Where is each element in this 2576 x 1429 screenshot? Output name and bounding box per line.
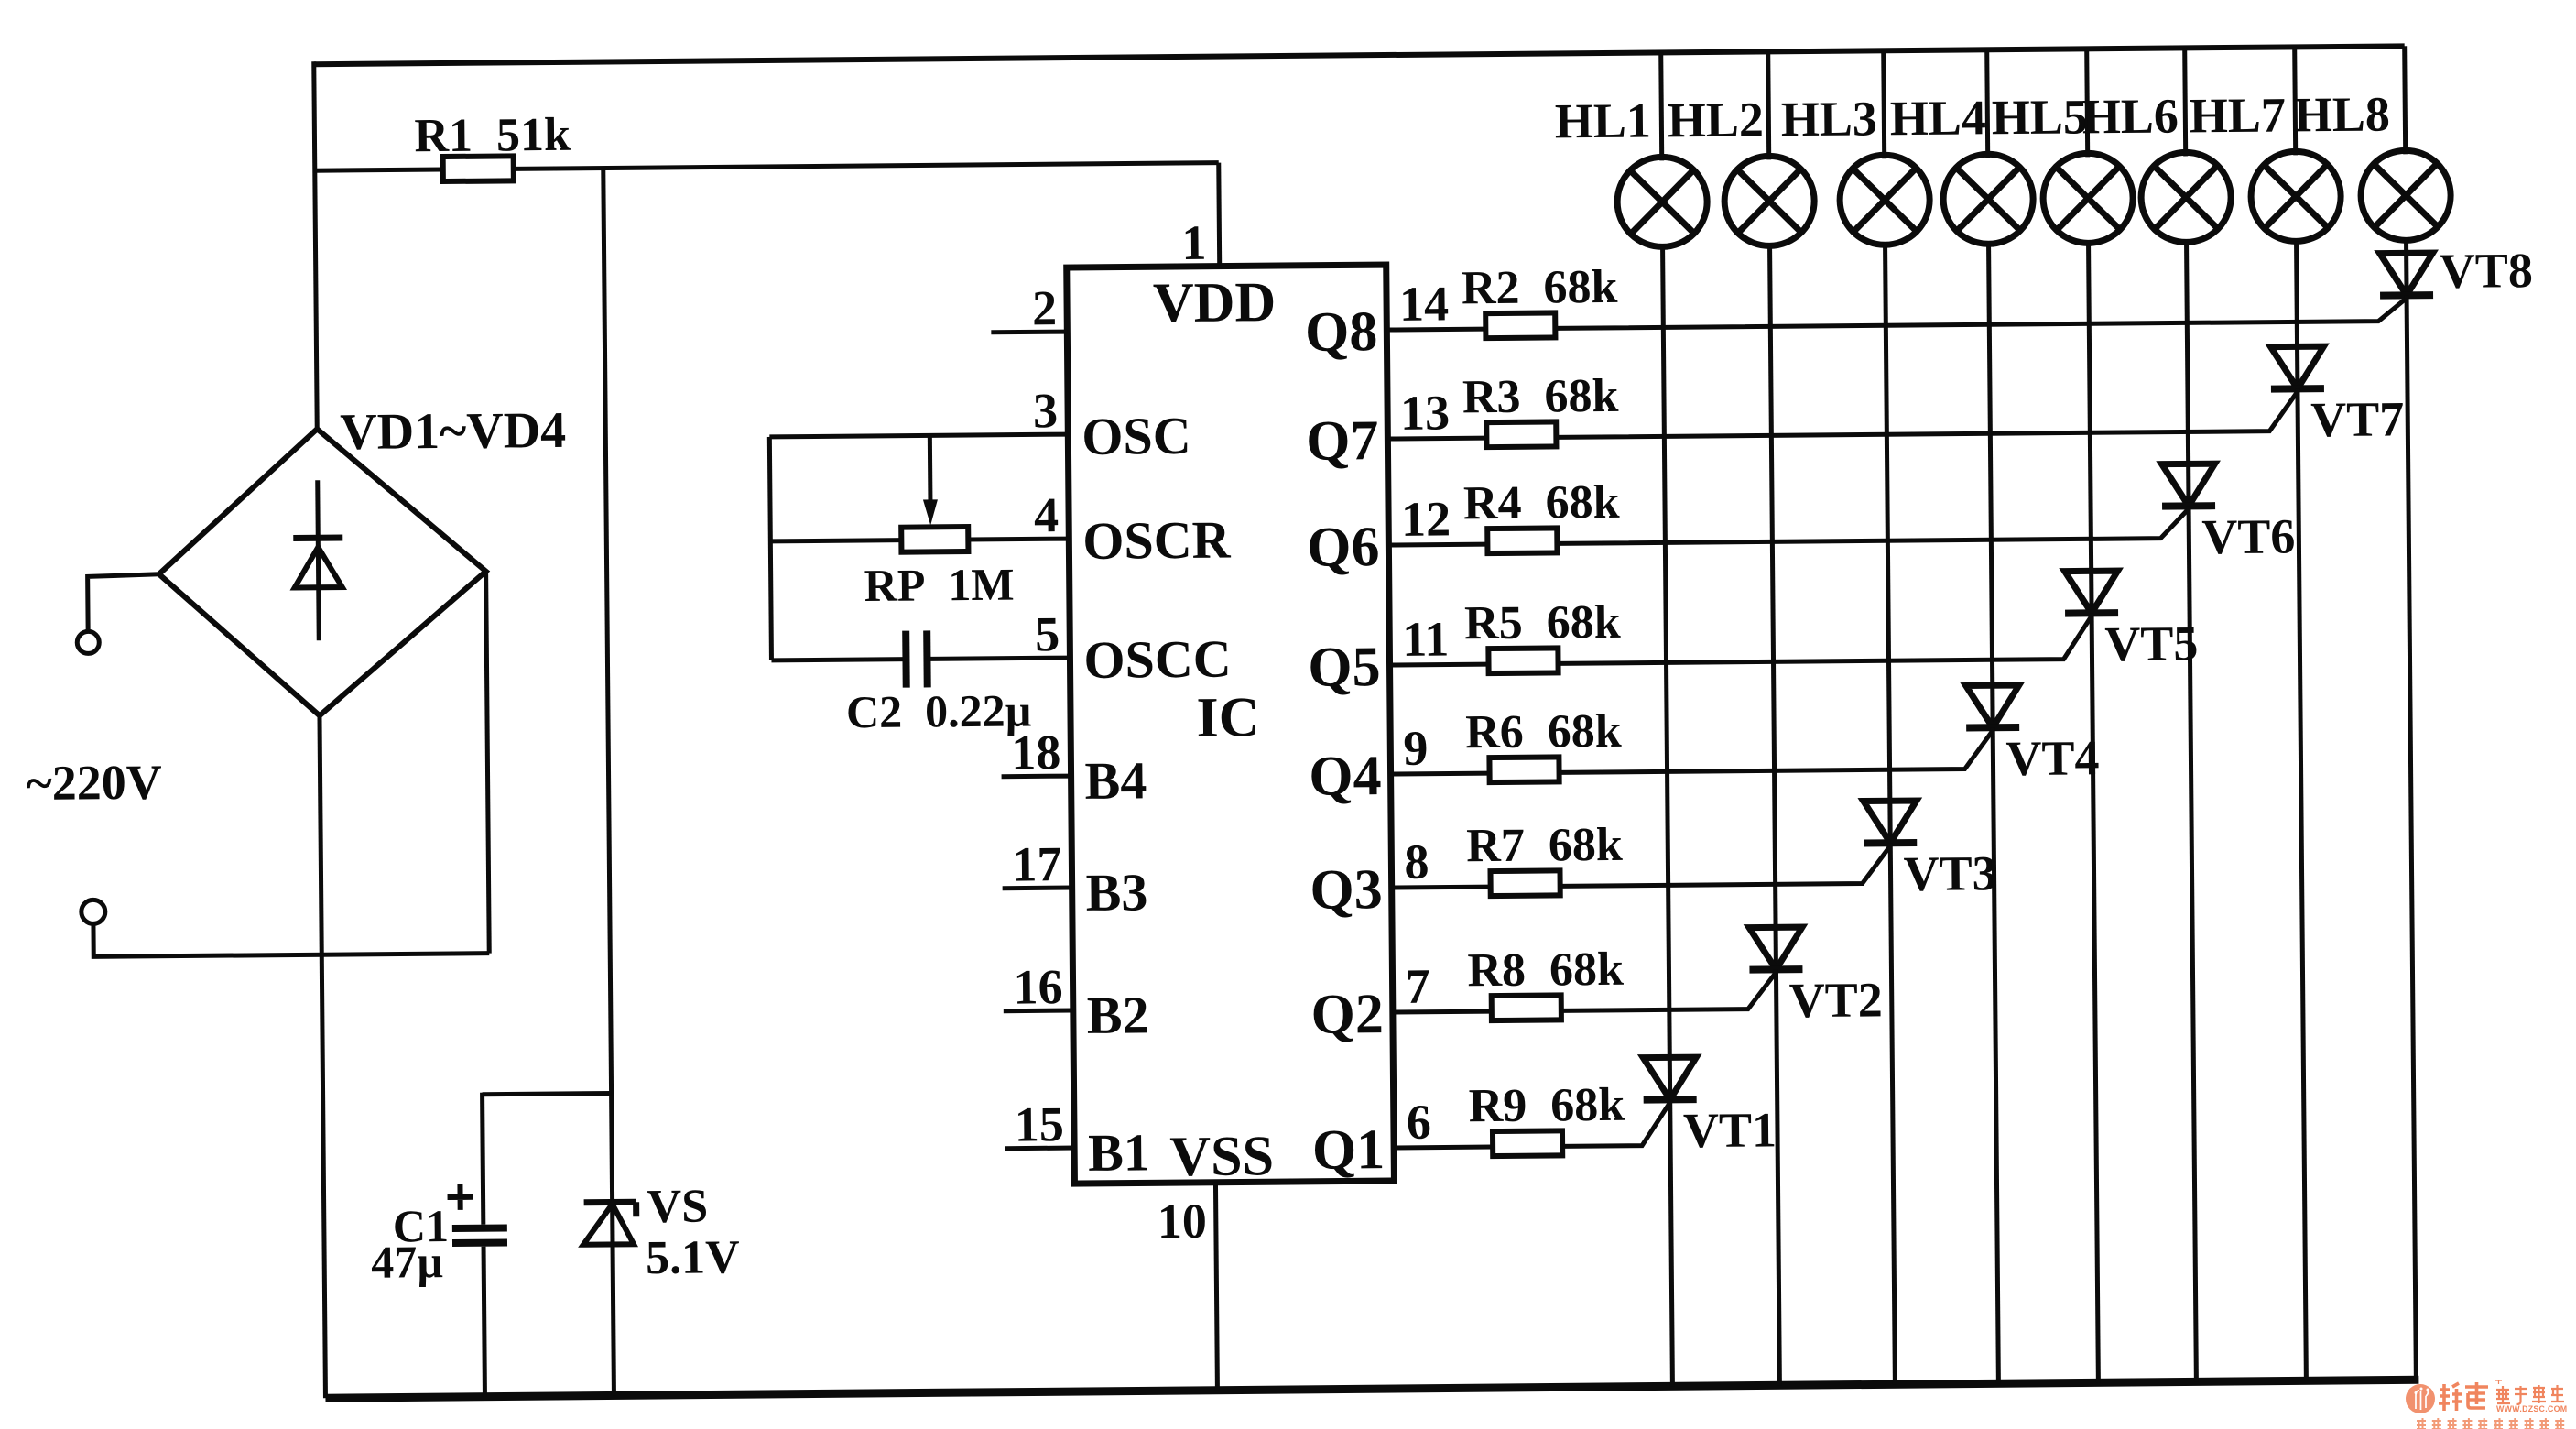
svg-text:VT1: VT1 bbox=[1683, 1102, 1777, 1158]
svg-text:R3 68k: R3 68k bbox=[1462, 370, 1619, 423]
svg-text:Q7: Q7 bbox=[1306, 409, 1379, 473]
wire pin 17 stub bbox=[1003, 886, 1072, 891]
svg-text:5: 5 bbox=[1035, 606, 1060, 661]
svg-text:15: 15 bbox=[1015, 1096, 1065, 1151]
wire HL3 to VT3 anode bbox=[1886, 245, 1891, 843]
svg-text:HL3: HL3 bbox=[1781, 91, 1878, 147]
wire OSCR pin 4 left segment bbox=[770, 540, 901, 541]
svg-text:RP 1M: RP 1M bbox=[864, 559, 1015, 611]
svg-text:17: 17 bbox=[1012, 836, 1062, 891]
wire R9 to VT1 gate bbox=[1562, 1102, 1670, 1146]
svg-text:1: 1 bbox=[1181, 215, 1207, 270]
svg-text:VT8: VT8 bbox=[2440, 243, 2534, 299]
svg-text:HL7: HL7 bbox=[2190, 87, 2287, 143]
wire VT3 cathode to bottom bus bbox=[1890, 843, 1895, 1384]
lamp HL1 bbox=[1617, 157, 1708, 247]
thyristor VT4 bbox=[1966, 685, 2019, 728]
wire OSCC pin 5 right segment bbox=[927, 658, 1070, 659]
wire R7 to VT3 gate bbox=[1560, 845, 1890, 886]
svg-text:R5 68k: R5 68k bbox=[1464, 596, 1621, 649]
resistor R1 bbox=[443, 156, 514, 181]
wire Q4 pin to R6 bbox=[1391, 771, 1490, 777]
wire HL7 to VT7 anode bbox=[2297, 241, 2298, 388]
wire R3 to VT7 gate bbox=[1556, 391, 2298, 437]
svg-text:VT7: VT7 bbox=[2310, 391, 2405, 447]
svg-text:VT5: VT5 bbox=[2104, 616, 2199, 671]
resistor R8 bbox=[1492, 995, 1561, 1020]
svg-text:WWW.DZSC.COM: WWW.DZSC.COM bbox=[2496, 1404, 2567, 1413]
svg-text:VT4: VT4 bbox=[2005, 730, 2100, 786]
wire pin 18 stub bbox=[1002, 774, 1071, 780]
wire VT6 cathode to bottom bus bbox=[2189, 506, 2196, 1381]
svg-text:47µ: 47µ bbox=[371, 1236, 443, 1288]
wire HL8 top lead bbox=[2405, 46, 2406, 154]
wire R4 to VT6 gate bbox=[1557, 508, 2189, 543]
svg-text:4: 4 bbox=[1034, 487, 1060, 542]
svg-text:~220V: ~220V bbox=[26, 755, 162, 811]
svg-text:OSC: OSC bbox=[1081, 406, 1191, 466]
svg-text:14: 14 bbox=[1399, 276, 1450, 331]
wire R6 to VT4 gate bbox=[1559, 730, 1993, 772]
svg-text:R9 68k: R9 68k bbox=[1468, 1079, 1625, 1132]
wire HL4 top lead bbox=[1987, 49, 1988, 158]
svg-text:R8 68k: R8 68k bbox=[1467, 944, 1624, 997]
lamp HL3 bbox=[1840, 155, 1930, 245]
wire R5 to VT5 gate bbox=[1558, 616, 2092, 663]
svg-text:HL6: HL6 bbox=[2082, 88, 2179, 144]
thyristor VT6 bbox=[2162, 464, 2215, 507]
wire HL5 to VT5 anode bbox=[2089, 243, 2092, 613]
wire HL2 top lead bbox=[1768, 51, 1769, 159]
svg-text:6: 6 bbox=[1407, 1095, 1432, 1150]
capacitor C1 bbox=[452, 1224, 507, 1247]
svg-text:10: 10 bbox=[1158, 1194, 1208, 1249]
wire OSCC pin 5 left segment bbox=[771, 660, 906, 660]
wire pin 16 stub bbox=[1004, 1009, 1073, 1014]
wire VDD pin 1 vertical bbox=[1216, 163, 1222, 267]
svg-text:Q4: Q4 bbox=[1309, 745, 1382, 808]
svg-text:B1: B1 bbox=[1088, 1122, 1150, 1183]
wire HL6 top lead bbox=[2185, 48, 2186, 156]
svg-text:R2 68k: R2 68k bbox=[1462, 261, 1618, 314]
wire C1 bottom lead bbox=[484, 1247, 484, 1397]
wire HL5 top lead bbox=[2087, 49, 2088, 157]
wire bridge bottom vertex to bottom bus bbox=[320, 715, 326, 1398]
svg-text:Q8: Q8 bbox=[1305, 300, 1378, 364]
svg-text:Q2: Q2 bbox=[1310, 983, 1384, 1046]
svg-text:7: 7 bbox=[1405, 959, 1430, 1014]
svg-text:VT2: VT2 bbox=[1788, 972, 1883, 1028]
wire VT7 cathode to bottom bus bbox=[2298, 388, 2306, 1380]
svg-text:Q5: Q5 bbox=[1308, 636, 1381, 699]
lamp HL2 bbox=[1724, 156, 1815, 246]
thyristor VT7 bbox=[2271, 346, 2324, 389]
svg-text:13: 13 bbox=[1400, 385, 1451, 440]
terminal upper AC input bbox=[77, 631, 99, 653]
resistor R5 bbox=[1488, 648, 1558, 673]
svg-text:OSCC: OSCC bbox=[1083, 629, 1232, 690]
svg-text:HL1: HL1 bbox=[1555, 93, 1652, 149]
svg-text:B2: B2 bbox=[1087, 985, 1149, 1045]
thyristor VT8 bbox=[2380, 253, 2433, 296]
wire Q7 pin to R3 bbox=[1387, 436, 1486, 442]
terminal lower AC input bbox=[82, 900, 105, 923]
zener diode VS bbox=[583, 1202, 636, 1245]
wire left border vertical (bridge + to top bus) bbox=[314, 61, 317, 429]
op-amp IC body bbox=[1067, 265, 1395, 1184]
svg-text:VDD: VDD bbox=[1153, 271, 1277, 334]
wire R1 to VDD pin bbox=[514, 163, 1219, 169]
lamp HL7 bbox=[2251, 151, 2342, 242]
resistor R4 bbox=[1487, 528, 1557, 553]
resistor R6 bbox=[1489, 757, 1559, 782]
wire Q1 pin to R9 bbox=[1394, 1145, 1493, 1151]
thyristor VT1 bbox=[1643, 1057, 1696, 1100]
svg-text:HL4: HL4 bbox=[1890, 90, 1987, 146]
thyristor VT5 bbox=[2065, 571, 2118, 614]
wire VS rail vertical bbox=[603, 168, 614, 1395]
wire VSS pin 10 vertical bbox=[1215, 1183, 1217, 1391]
wire pin 2 stub bbox=[991, 330, 1067, 335]
svg-text:HL2: HL2 bbox=[1668, 92, 1765, 147]
wire top supply bus bbox=[314, 46, 2405, 64]
svg-text:12: 12 bbox=[1401, 491, 1451, 546]
svg-text:B3: B3 bbox=[1085, 862, 1147, 922]
thyristor VT3 bbox=[1864, 801, 1917, 844]
wire HL1 top lead bbox=[1661, 52, 1662, 160]
wire RP wiper arrow bbox=[922, 435, 938, 525]
resistor R9 bbox=[1493, 1130, 1562, 1156]
wire Q6 pin to R4 bbox=[1388, 542, 1487, 548]
wire R1 left segment bbox=[315, 169, 443, 170]
svg-text:VT3: VT3 bbox=[1903, 845, 1997, 901]
wire lower terminal to bridge right vertex line bbox=[93, 921, 489, 957]
wire Q5 pin to R5 bbox=[1390, 662, 1489, 668]
svg-text:OSCR: OSCR bbox=[1082, 510, 1232, 571]
label C1 polarity + bbox=[447, 1184, 473, 1210]
svg-text:R1 51k: R1 51k bbox=[414, 109, 571, 162]
svg-text:Q3: Q3 bbox=[1310, 858, 1383, 922]
wire VT1 cathode to bottom bus bbox=[1670, 1099, 1673, 1386]
svg-text:R4 68k: R4 68k bbox=[1463, 476, 1620, 529]
resistor R7 bbox=[1491, 870, 1560, 896]
svg-text:8: 8 bbox=[1404, 834, 1429, 889]
wire VT8 cathode to bottom bus bbox=[2407, 295, 2416, 1380]
wire OSC pin 3 bbox=[769, 434, 1068, 437]
wire HL7 top lead bbox=[2295, 47, 2296, 155]
wire VT2 cathode to bottom bus bbox=[1776, 969, 1779, 1385]
wire R8 to VT2 gate bbox=[1560, 972, 1776, 1010]
svg-text:R7 68k: R7 68k bbox=[1466, 819, 1623, 872]
svg-text:VSS: VSS bbox=[1169, 1125, 1274, 1188]
wire R2 to VT8 gate bbox=[1555, 298, 2407, 328]
wire HL3 top lead bbox=[1884, 50, 1885, 158]
lamp HL8 bbox=[2361, 150, 2451, 241]
svg-text:HL8: HL8 bbox=[2294, 86, 2391, 142]
svg-text:3: 3 bbox=[1033, 383, 1059, 438]
lamp HL5 bbox=[2043, 153, 2134, 244]
lamp HL4 bbox=[1943, 154, 2034, 245]
svg-text:R6 68k: R6 68k bbox=[1465, 705, 1622, 758]
svg-text:IC: IC bbox=[1196, 686, 1259, 749]
wire HL6 to VT6 anode bbox=[2187, 242, 2190, 506]
svg-text:VD1~VD4: VD1~VD4 bbox=[340, 402, 566, 461]
svg-text:11: 11 bbox=[1402, 611, 1450, 666]
capacitor C2 bbox=[906, 630, 928, 687]
svg-text:5.1V: 5.1V bbox=[646, 1231, 740, 1284]
wire OSCR pin 4 right segment bbox=[968, 537, 1069, 542]
resistor R3 bbox=[1486, 421, 1556, 447]
wire oscillator loop left vertical bbox=[769, 437, 771, 660]
wire Q3 pin to R7 bbox=[1392, 885, 1491, 890]
wire VT4 cathode to bottom bus bbox=[1993, 727, 1998, 1383]
wire HL2 to VT2 anode bbox=[1770, 245, 1777, 969]
wire HL8 to VT8 anode bbox=[2404, 240, 2409, 295]
wire pin 15 stub bbox=[1005, 1146, 1074, 1151]
thyristor VT2 bbox=[1749, 927, 1802, 970]
svg-text:VS: VS bbox=[647, 1181, 708, 1234]
wire upper terminal to bridge left vertex bbox=[88, 574, 160, 632]
lamp HL6 bbox=[2141, 152, 2232, 243]
svg-text:HL5: HL5 bbox=[1992, 89, 2089, 145]
wire C1 branch bbox=[483, 1093, 612, 1094]
svg-text:VT6: VT6 bbox=[2201, 508, 2296, 564]
wire VT5 cathode to bottom bus bbox=[2092, 613, 2098, 1382]
watermark dzsc logo bbox=[2406, 1380, 2567, 1429]
svg-text:B4: B4 bbox=[1084, 750, 1147, 811]
bridge rectifier VD1~VD4 bbox=[158, 428, 487, 717]
wire C1 top lead bbox=[483, 1093, 484, 1225]
resistor R2 bbox=[1485, 312, 1555, 338]
wire Q2 pin to R8 bbox=[1393, 1009, 1492, 1015]
wire bridge right vertex down bbox=[486, 572, 490, 954]
svg-text:C2 0.22µ: C2 0.22µ bbox=[846, 684, 1032, 737]
wire Q8 pin to R2 bbox=[1386, 327, 1485, 333]
wire HL1 to VT1 anode bbox=[1663, 246, 1670, 1099]
wire bottom return bus bbox=[325, 1380, 2418, 1398]
svg-text:Q1: Q1 bbox=[1312, 1118, 1386, 1182]
svg-text:9: 9 bbox=[1403, 721, 1429, 776]
potentiometer RP bbox=[901, 527, 968, 552]
svg-text:16: 16 bbox=[1013, 959, 1063, 1014]
svg-text:Q6: Q6 bbox=[1307, 516, 1380, 579]
wire HL4 to VT4 anode bbox=[1989, 244, 1994, 727]
svg-text:2: 2 bbox=[1032, 280, 1058, 335]
